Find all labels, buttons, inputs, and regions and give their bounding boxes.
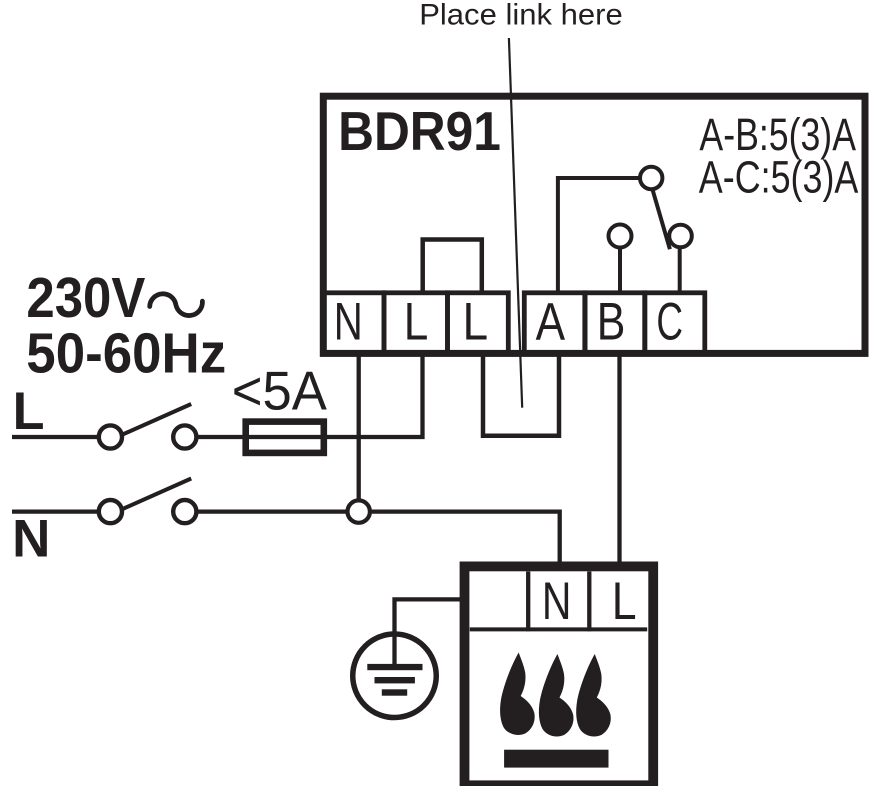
svg-text:N: N xyxy=(12,510,50,569)
switch N blade xyxy=(123,479,192,510)
terminal L1 xyxy=(384,293,448,354)
svg-text:L: L xyxy=(612,572,637,630)
wire junction to boiler N xyxy=(370,512,560,563)
svg-text:B: B xyxy=(597,292,626,351)
AC waveform symbol xyxy=(150,294,203,316)
wire N feed xyxy=(12,509,99,513)
switch L pole 2 xyxy=(173,425,196,448)
relay contact C xyxy=(669,225,692,248)
flame 2 xyxy=(539,654,574,736)
svg-text:50-60Hz: 50-60Hz xyxy=(26,322,226,385)
relay contact B xyxy=(609,225,632,248)
svg-text:230V: 230V xyxy=(26,267,145,330)
wire terminal A to relay common xyxy=(558,178,640,293)
svg-text:C: C xyxy=(656,292,683,351)
relay armature xyxy=(652,189,670,249)
terminal N xyxy=(323,291,384,353)
switch N pole 1 xyxy=(99,500,122,523)
wire terminal N to junction xyxy=(357,354,361,500)
wire through fuse to terminal L1 xyxy=(246,354,423,437)
wire switch L to fuse xyxy=(196,435,246,439)
boiler outline xyxy=(465,566,654,785)
fuse F1 xyxy=(246,422,324,453)
wire terminal B to boiler L xyxy=(617,354,621,563)
boiler terminal strip divider xyxy=(470,627,647,631)
earth symbol circle xyxy=(353,634,437,718)
terminal A xyxy=(524,293,585,354)
relay common contact xyxy=(640,167,662,189)
terminal B xyxy=(585,292,645,353)
earth wire xyxy=(395,599,461,666)
earth bar 1 xyxy=(367,664,422,670)
wire contact C to terminal C xyxy=(678,247,682,293)
junction node xyxy=(348,500,370,522)
earth bar 3 xyxy=(382,689,407,695)
switch L blade xyxy=(123,404,192,435)
wire L-L bridge xyxy=(423,240,482,294)
terminal C xyxy=(645,292,705,353)
wire contact B to terminal B xyxy=(618,248,622,294)
leader line to link position xyxy=(509,38,522,408)
svg-text:L: L xyxy=(13,382,45,441)
svg-text:BDR91: BDR91 xyxy=(338,102,501,163)
terminal L2 xyxy=(448,292,509,354)
wire switch N to junction xyxy=(196,509,347,513)
svg-text:Place link here: Place link here xyxy=(419,0,623,31)
switch L pole 1 xyxy=(99,425,122,448)
wire link terminal L2 to terminal A xyxy=(483,354,559,436)
svg-text:L: L xyxy=(404,293,429,352)
relay module BDR91 outline xyxy=(323,96,865,353)
svg-text:L: L xyxy=(463,292,489,352)
svg-text:N: N xyxy=(542,572,572,631)
flame 1 xyxy=(500,653,535,735)
svg-text:N: N xyxy=(334,291,363,351)
svg-text:A-C:5(3)A: A-C:5(3)A xyxy=(699,151,859,202)
switch N pole 2 xyxy=(173,500,196,523)
earth bar 2 xyxy=(375,677,415,683)
svg-text:<5A: <5A xyxy=(232,361,327,422)
svg-text:A: A xyxy=(536,293,566,352)
wire L feed xyxy=(12,435,99,439)
boiler terminal divider 1 xyxy=(526,572,530,632)
burner bar xyxy=(504,750,608,768)
flame 3 xyxy=(576,654,611,736)
boiler terminal divider 2 xyxy=(587,572,591,632)
